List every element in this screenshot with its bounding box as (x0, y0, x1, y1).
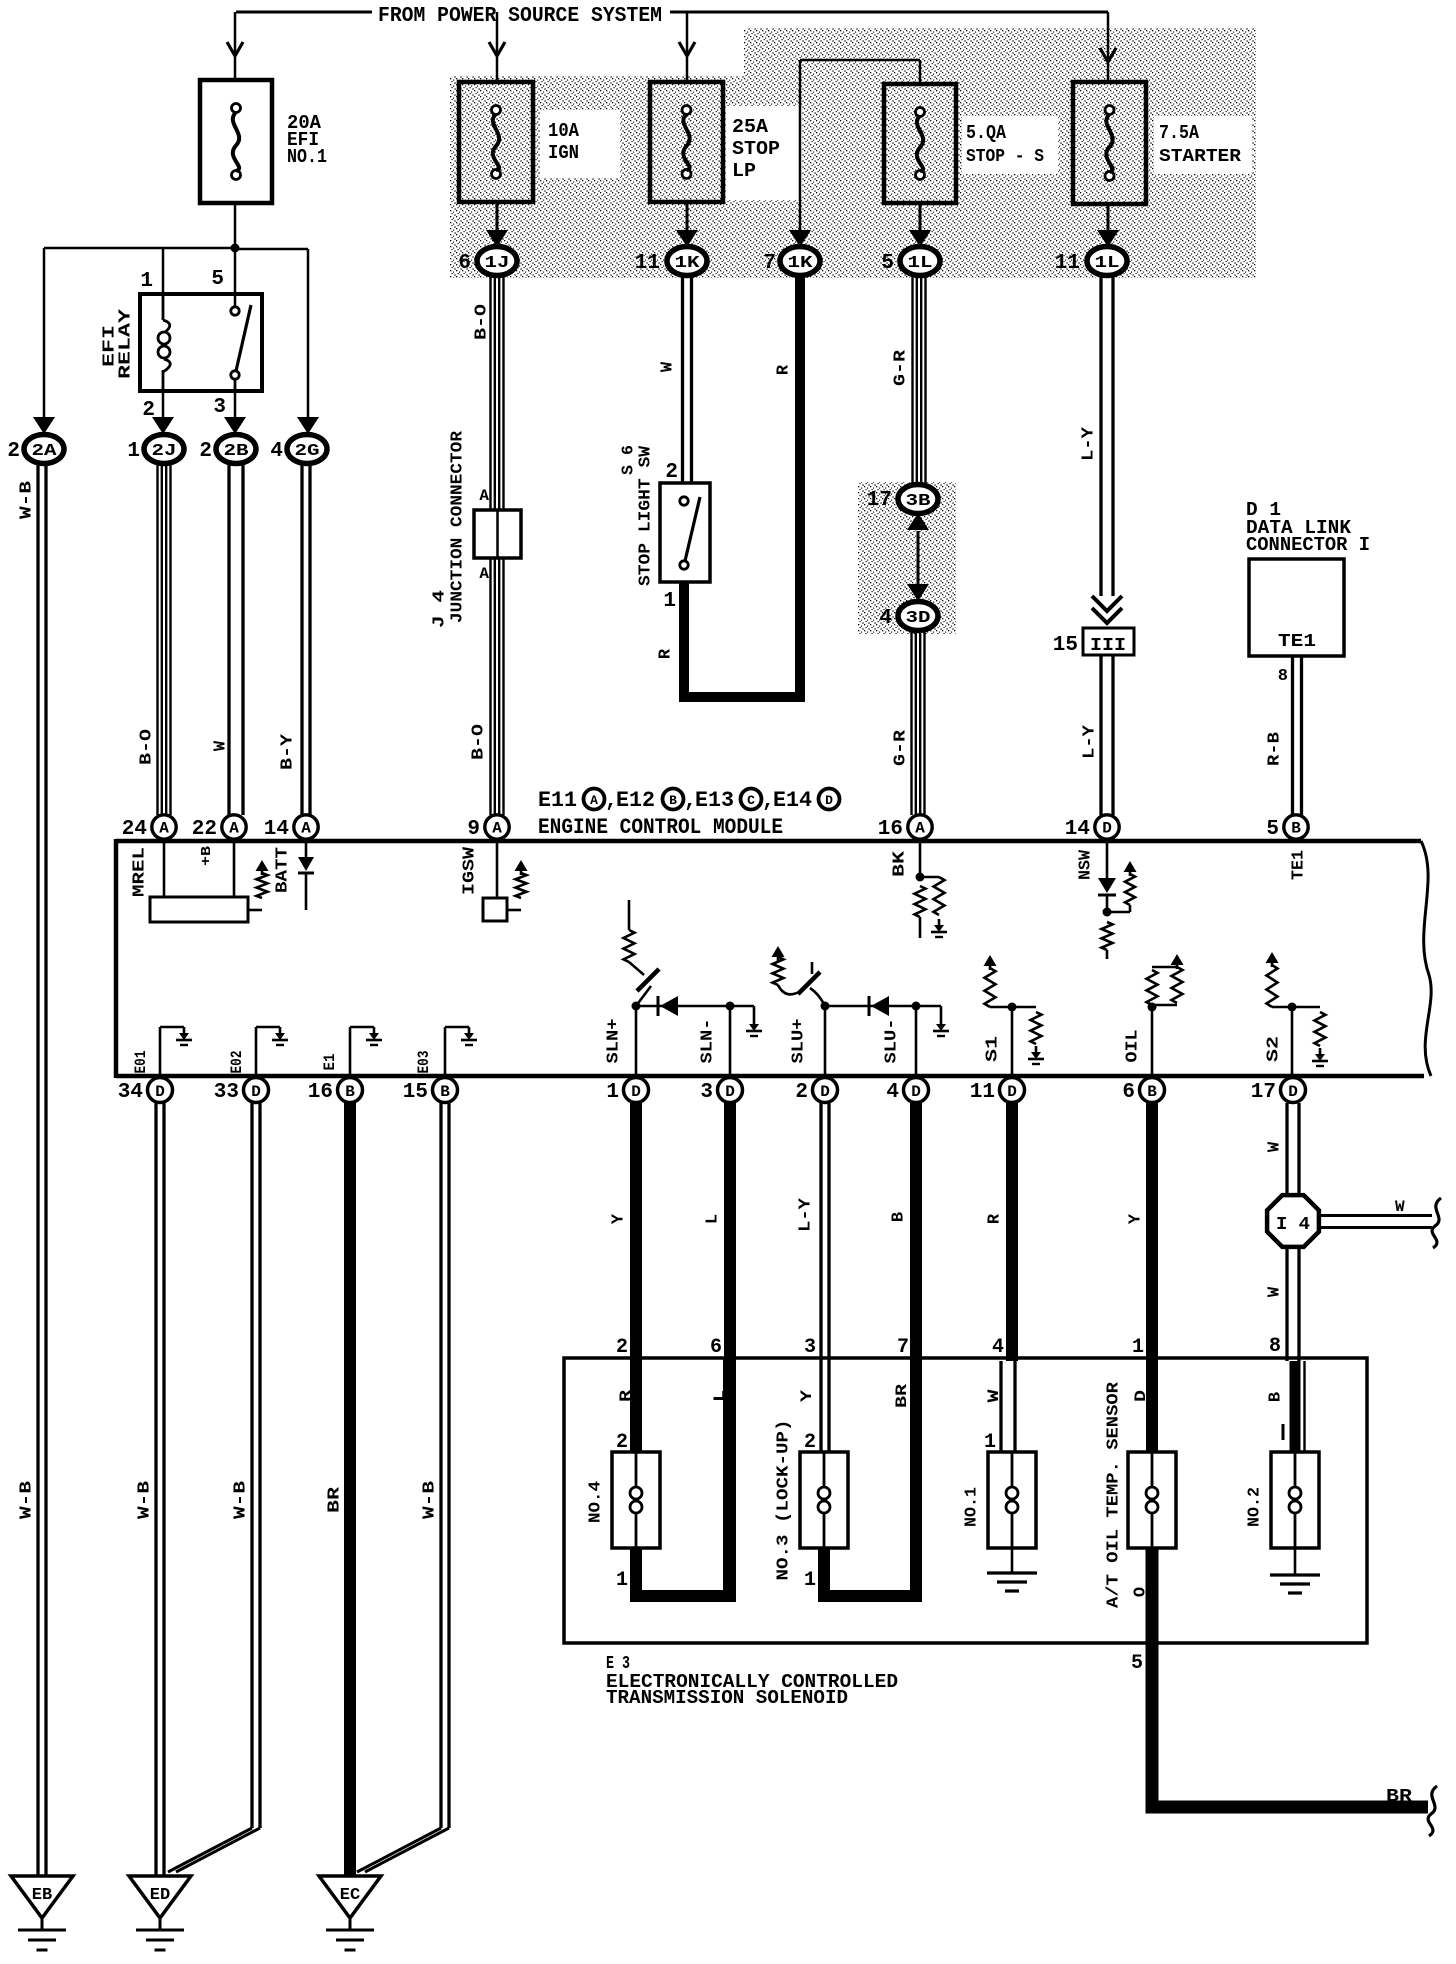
svg-text:IGSW: IGSW (461, 846, 480, 895)
svg-text:TE1: TE1 (1290, 850, 1309, 880)
svg-text:W-B: W-B (232, 1481, 251, 1519)
svg-text:Y: Y (798, 1390, 816, 1402)
svg-text:W-B: W-B (18, 1481, 37, 1519)
svg-text:S2: S2 (1265, 1036, 1284, 1062)
svg-text:BR: BR (1386, 1787, 1412, 1807)
svg-text:JUNCTION CONNECTOR: JUNCTION CONNECTOR (449, 430, 468, 623)
svg-text:NO.1: NO.1 (287, 146, 327, 168)
svg-text:1J: 1J (485, 254, 510, 273)
svg-text:5: 5 (881, 252, 894, 275)
svg-text:1K: 1K (675, 254, 701, 273)
svg-text:8: 8 (1269, 1335, 1281, 1358)
svg-text:11: 11 (635, 252, 660, 275)
svg-text:3: 3 (700, 1081, 713, 1104)
svg-text:A: A (915, 820, 925, 838)
svg-text:1: 1 (140, 270, 153, 293)
svg-text:BATT: BATT (274, 847, 293, 893)
svg-text:S1: S1 (984, 1036, 1003, 1062)
svg-text:NO.4: NO.4 (587, 1481, 606, 1523)
svg-text:D: D (1132, 1390, 1150, 1402)
svg-text:1L: 1L (1095, 254, 1120, 273)
svg-text:33: 33 (214, 1081, 239, 1104)
svg-text:III: III (1090, 636, 1126, 656)
svg-text:D: D (1007, 1083, 1017, 1101)
svg-text:D: D (155, 1083, 165, 1101)
svg-text:B: B (669, 793, 677, 808)
svg-text:2: 2 (665, 461, 678, 484)
svg-text:LP: LP (732, 160, 756, 182)
svg-text:B-O: B-O (138, 729, 157, 765)
svg-text:4: 4 (879, 607, 892, 630)
svg-text:5: 5 (1266, 818, 1279, 841)
svg-text:R: R (617, 1390, 635, 1402)
svg-text:TE1: TE1 (1278, 632, 1316, 652)
svg-text:W: W (1395, 1198, 1405, 1216)
svg-text:E12: E12 (616, 788, 655, 813)
svg-text:3: 3 (804, 1336, 816, 1359)
svg-text:R-B: R-B (1266, 732, 1285, 766)
svg-text:STOP LIGHT SW: STOP LIGHT SW (637, 445, 656, 586)
svg-text:2A: 2A (32, 442, 58, 461)
svg-text:CONNECTOR I: CONNECTOR I (1246, 534, 1370, 556)
svg-text:L-Y: L-Y (1081, 724, 1100, 759)
svg-text:E1: E1 (321, 1054, 339, 1071)
svg-text:MREL: MREL (131, 847, 150, 897)
svg-text:L: L (704, 1214, 723, 1224)
svg-text:R: R (657, 648, 676, 659)
svg-text:1: 1 (616, 1569, 628, 1592)
svg-text:NO.3 (LOCK-UP): NO.3 (LOCK-UP) (775, 1420, 794, 1581)
svg-text:BR: BR (893, 1384, 911, 1408)
svg-text:D: D (911, 1083, 921, 1101)
svg-text:W-B: W-B (421, 1481, 440, 1519)
svg-text:B: B (345, 1083, 355, 1101)
svg-text:A: A (479, 565, 489, 583)
svg-text:NO.2: NO.2 (1246, 1487, 1265, 1527)
svg-text:A: A (492, 820, 502, 838)
svg-text:4: 4 (886, 1081, 899, 1104)
svg-text:W-B: W-B (18, 481, 37, 519)
svg-text:L-Y: L-Y (797, 1197, 816, 1232)
svg-text:STOP: STOP (732, 138, 780, 160)
svg-text:O: O (1132, 1587, 1151, 1597)
svg-text:17: 17 (1251, 1081, 1276, 1104)
svg-text:11: 11 (970, 1081, 995, 1104)
svg-text:BR: BR (326, 1486, 345, 1513)
svg-text:5: 5 (1131, 1652, 1143, 1675)
svg-text:2: 2 (804, 1431, 816, 1454)
svg-text:5.QA: 5.QA (966, 122, 1007, 144)
svg-text:34: 34 (118, 1081, 143, 1104)
svg-text:8: 8 (1278, 667, 1288, 686)
svg-text:B-Y: B-Y (279, 733, 298, 770)
svg-text:J 4: J 4 (431, 590, 450, 628)
svg-text:4: 4 (270, 440, 283, 463)
svg-text:FROM POWER SOURCE SYSTEM: FROM POWER SOURCE SYSTEM (378, 5, 662, 28)
svg-text:1K: 1K (788, 254, 814, 273)
svg-text:10A: 10A (548, 120, 580, 142)
svg-text:OIL: OIL (1124, 1030, 1143, 1063)
svg-text:SLU+: SLU+ (790, 1019, 809, 1064)
svg-text:6: 6 (458, 252, 471, 275)
svg-text:7: 7 (897, 1336, 909, 1359)
svg-text:W-B: W-B (136, 1481, 155, 1519)
svg-text:2: 2 (616, 1431, 628, 1454)
svg-text:D: D (820, 1083, 830, 1101)
svg-text:1: 1 (127, 440, 140, 463)
svg-text:C: C (747, 793, 755, 808)
svg-text:4: 4 (992, 1336, 1004, 1359)
svg-text:E03: E03 (415, 1051, 433, 1074)
svg-text:G-R: G-R (892, 729, 911, 766)
svg-text:7.5A: 7.5A (1159, 122, 1200, 144)
svg-text:1: 1 (606, 1081, 619, 1104)
svg-text:E13: E13 (695, 788, 734, 813)
svg-text:ED: ED (150, 1886, 170, 1905)
svg-text:25A: 25A (732, 116, 769, 138)
svg-text:EC: EC (340, 1886, 360, 1905)
svg-text:D: D (1288, 1083, 1298, 1101)
svg-text:6: 6 (1122, 1081, 1135, 1104)
svg-text:A: A (229, 820, 239, 838)
svg-text:STOP - S: STOP - S (966, 147, 1044, 167)
svg-text:W: W (659, 361, 678, 372)
svg-text:15: 15 (1053, 634, 1078, 657)
svg-text:W: W (1266, 1286, 1285, 1297)
svg-text:RELAY: RELAY (117, 308, 136, 379)
svg-text:NSW: NSW (1077, 849, 1096, 880)
svg-text:BK: BK (891, 850, 910, 877)
svg-text:D: D (1102, 820, 1112, 838)
svg-text:SLN+: SLN+ (605, 1019, 624, 1064)
svg-text:D: D (251, 1083, 261, 1101)
svg-text:2: 2 (795, 1081, 808, 1104)
svg-text:D: D (725, 1083, 735, 1101)
svg-text:2: 2 (199, 440, 212, 463)
svg-text:1: 1 (1132, 1336, 1144, 1359)
svg-text:TRANSMISSION SOLENOID: TRANSMISSION SOLENOID (606, 1687, 848, 1709)
svg-text:1: 1 (984, 1431, 996, 1454)
svg-text:R: R (775, 364, 794, 375)
svg-text:14: 14 (1065, 818, 1090, 841)
svg-text:A: A (479, 487, 489, 505)
svg-text:I 4: I 4 (1276, 1215, 1310, 1235)
svg-text:5: 5 (211, 268, 224, 291)
svg-text:2G: 2G (295, 442, 320, 461)
svg-text:W: W (1266, 1141, 1285, 1152)
svg-text:D: D (825, 793, 833, 808)
svg-text:E11: E11 (538, 788, 577, 813)
svg-text:14: 14 (264, 818, 289, 841)
svg-text:16: 16 (308, 1081, 333, 1104)
svg-text:E14: E14 (773, 788, 812, 813)
svg-text:W: W (985, 1389, 1003, 1403)
svg-text:D: D (631, 1083, 641, 1101)
svg-text:Y: Y (1127, 1213, 1146, 1224)
svg-text:2B: 2B (224, 442, 249, 461)
svg-text:1: 1 (804, 1569, 816, 1592)
svg-text:15: 15 (403, 1081, 428, 1104)
svg-text:B: B (1291, 820, 1301, 838)
svg-text:E01: E01 (132, 1051, 150, 1074)
svg-text:A: A (301, 820, 311, 838)
svg-text:B: B (440, 1083, 450, 1101)
svg-text:R: R (986, 1213, 1005, 1224)
svg-text:B-O: B-O (473, 304, 492, 340)
svg-text:2: 2 (616, 1336, 628, 1359)
svg-text:17: 17 (867, 489, 892, 512)
svg-text:+B: +B (199, 845, 215, 866)
svg-text:16: 16 (878, 818, 903, 841)
svg-text:SLU-: SLU- (883, 1019, 902, 1064)
svg-text:A: A (590, 793, 598, 808)
svg-text:1: 1 (663, 590, 676, 613)
svg-text:2: 2 (7, 440, 20, 463)
svg-text:NO.1: NO.1 (963, 1487, 982, 1527)
svg-text:7: 7 (763, 252, 776, 275)
svg-text:2J: 2J (152, 442, 177, 461)
svg-text:E02: E02 (228, 1051, 246, 1074)
svg-text:22: 22 (192, 818, 217, 841)
svg-text:IGN: IGN (548, 142, 579, 164)
svg-text:A/T OIL TEMP. SENSOR: A/T OIL TEMP. SENSOR (1105, 1381, 1124, 1608)
svg-text:B: B (1147, 1083, 1157, 1101)
svg-text:9: 9 (467, 818, 480, 841)
svg-text:3D: 3D (906, 609, 931, 628)
svg-text:1L: 1L (908, 254, 933, 273)
svg-text:G-R: G-R (892, 349, 911, 386)
svg-text:A: A (159, 820, 169, 838)
svg-text:11: 11 (1055, 252, 1080, 275)
svg-text:3B: 3B (906, 492, 931, 511)
svg-text:STARTER: STARTER (1159, 147, 1241, 167)
svg-text:B: B (890, 1212, 909, 1222)
svg-text:3: 3 (213, 396, 226, 419)
svg-text:B: B (1267, 1392, 1286, 1402)
svg-text:6: 6 (710, 1336, 722, 1359)
svg-text:ENGINE CONTROL MODULE: ENGINE CONTROL MODULE (538, 815, 783, 840)
svg-text:EB: EB (32, 1886, 52, 1905)
svg-text:L-Y: L-Y (1080, 426, 1099, 461)
svg-text:24: 24 (122, 818, 147, 841)
svg-text:Y: Y (610, 1213, 629, 1224)
svg-text:SLN-: SLN- (699, 1019, 718, 1064)
svg-text:W: W (212, 740, 231, 751)
svg-text:B-O: B-O (470, 724, 489, 760)
